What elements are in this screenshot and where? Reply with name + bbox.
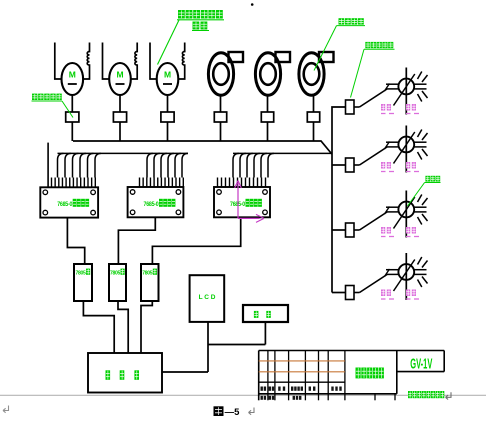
svg-text:M: M: [116, 70, 123, 80]
svg-text:L C D: L C D: [199, 294, 216, 301]
svg-text:7805: 7805: [142, 271, 153, 277]
svg-text:7685-0: 7685-0: [144, 201, 160, 208]
svg-text:M: M: [164, 70, 171, 80]
svg-text:—5: —5: [225, 407, 241, 418]
svg-text:7805: 7805: [110, 271, 121, 277]
svg-text:GV-1V: GV-1V: [410, 356, 432, 372]
svg-text:M: M: [69, 70, 76, 80]
svg-text:7685-0: 7685-0: [57, 201, 73, 208]
svg-text:7805: 7805: [76, 271, 87, 277]
